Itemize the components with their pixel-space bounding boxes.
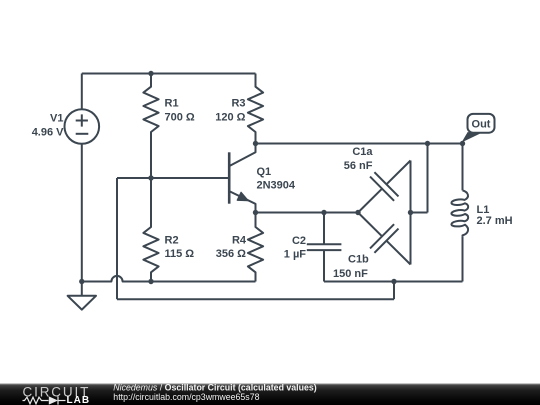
svg-text:Q1: Q1	[257, 166, 272, 178]
transistor Q1	[229, 144, 255, 213]
footer credit text	[113, 382, 316, 402]
resistor R4	[248, 213, 263, 282]
node bowtie left	[355, 210, 360, 215]
capacitor C2	[307, 213, 342, 282]
ground	[68, 282, 96, 310]
node R2 bottom	[148, 279, 153, 284]
node bowtie right	[408, 210, 413, 215]
resistor R3	[248, 74, 263, 144]
wire feedback bottom horizontal	[117, 298, 394, 300]
wire Q1 base wire	[117, 177, 229, 179]
svg-text:LAB: LAB	[67, 395, 91, 405]
capacitor C1a	[358, 161, 411, 213]
node ground V1	[79, 279, 84, 284]
wire tap from bowtie to riser	[411, 212, 428, 214]
wire V1 bottom lead	[81, 144, 83, 282]
svg-text:V1: V1	[50, 113, 63, 125]
node C2 top	[321, 210, 326, 215]
node riser top	[425, 141, 430, 146]
resistor R2	[143, 178, 158, 282]
svg-text:R3: R3	[231, 98, 245, 110]
svg-text:R2: R2	[165, 235, 179, 247]
svg-text:115 Ω: 115 Ω	[165, 248, 195, 260]
wire bowtie right vertical side	[410, 161, 412, 265]
svg-text:356 Ω: 356 Ω	[216, 248, 246, 260]
wire emitter rail	[256, 212, 359, 214]
node dots	[79, 71, 465, 284]
node emitter	[253, 210, 258, 215]
svg-text:700 Ω: 700 Ω	[165, 112, 195, 124]
svg-text:1 µF: 1 µF	[284, 249, 307, 261]
svg-text:Nicedemus / Oscillator Circuit: Nicedemus / Oscillator Circuit (calculat…	[113, 382, 316, 392]
svg-text:2.7 mH: 2.7 mH	[477, 215, 513, 227]
voltage source V1	[65, 109, 100, 144]
wire C1b/L1 bottom rail	[324, 281, 463, 283]
svg-text:R1: R1	[165, 98, 179, 110]
node base divider	[148, 175, 153, 180]
svg-text:C2: C2	[292, 235, 306, 247]
svg-text:C1a: C1a	[352, 146, 373, 158]
wire collector rail	[256, 143, 463, 145]
svg-text:R4: R4	[232, 235, 247, 247]
logo CIRCUIT	[23, 385, 91, 405]
node collector	[253, 141, 258, 146]
wire feedback left vertical	[116, 178, 118, 299]
node Out	[460, 141, 465, 146]
svg-text:150 nF: 150 nF	[333, 268, 368, 280]
wire V1 top lead	[81, 74, 83, 110]
transistor Q1 emitter arrow	[237, 192, 248, 200]
inductor L1	[451, 144, 468, 282]
svg-text:2N3904: 2N3904	[257, 180, 296, 192]
node feedback join	[391, 279, 396, 284]
svg-text:4.96 V: 4.96 V	[32, 127, 64, 139]
node R1 top	[148, 71, 153, 76]
wire ground rail with hop over feedback wire	[82, 276, 256, 282]
svg-text:120 Ω: 120 Ω	[215, 112, 245, 124]
resistor R1	[143, 74, 158, 179]
svg-text:C1b: C1b	[348, 254, 369, 266]
svg-text:Out: Out	[472, 118, 491, 130]
flag Out	[462, 114, 495, 143]
capacitor C1b	[358, 213, 411, 265]
svg-text:http://circuitlab.com/cp3wmwee: http://circuitlab.com/cp3wmwee65s78	[113, 392, 259, 402]
wire riser to collector rail	[427, 144, 429, 213]
svg-text:56 nF: 56 nF	[344, 160, 373, 172]
logo resistor-diode glyph	[23, 396, 66, 404]
wire feedback riser to C1b net	[393, 282, 395, 300]
wire top rail	[82, 73, 256, 75]
